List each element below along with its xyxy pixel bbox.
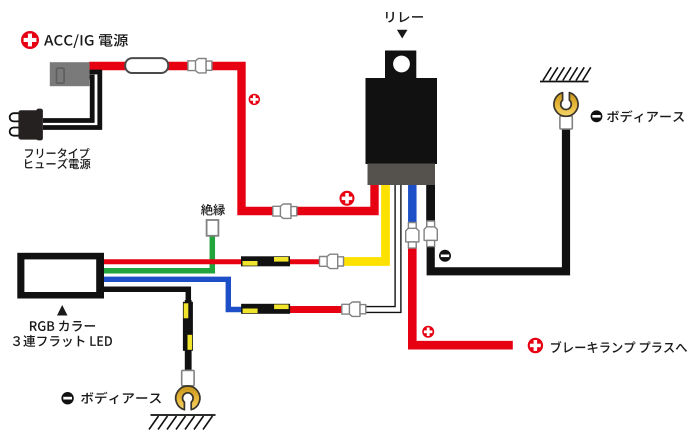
connector C1 on red feed: [188, 59, 212, 73]
icon: minus badge near relay ground: [439, 250, 451, 262]
wire: black leads from power connector to fuse holder: [43, 72, 100, 128]
label: リレー: [386, 12, 423, 23]
icon: plus badge ACC power: [21, 31, 39, 49]
relay U1 body: [366, 78, 438, 164]
label: ボディアース (right): [607, 110, 684, 122]
LED unit lens: [24, 259, 96, 292]
wire: relay white lead (outlined) to connector: [360, 181, 398, 310]
label: RGB カラー: [30, 321, 95, 332]
wire: ACC/IG red feed via fuse to relay: [89, 66, 375, 211]
fuse tube on red feed: [125, 58, 168, 73]
relay U1 mounting tab: [385, 51, 416, 80]
wire: LED blue lead to splice: [104, 279, 250, 309]
fuse holder: free-type fuse body: [18, 109, 42, 141]
ground: body earth hatching (top right): [540, 67, 591, 81]
label: ３連フラット LED: [13, 335, 112, 347]
icon: plus badge brake lamp label: [528, 338, 543, 353]
LED unit body: [17, 253, 104, 299]
wire: relay ground black lead to body earth: [431, 126, 566, 271]
marker: triangle pointing to LED: [57, 305, 68, 316]
connector C4 red-to-white: [342, 302, 366, 316]
splice on LED red lead: [241, 256, 290, 266]
connector C6 on black lead: [424, 221, 437, 247]
terminal: ring crimp sleeve (bottom left): [182, 370, 194, 385]
wire: red brake-signal lead to brake lamp: [412, 244, 513, 345]
connector C5 on blue lead: [406, 223, 419, 249]
label: ACC/IG 電源: [44, 34, 128, 48]
connector C2 on red feed lower run: [273, 204, 297, 218]
terminal: gold spade lug (bottom left): [176, 386, 200, 410]
wire: LED black lead down to earth terminal: [104, 289, 188, 372]
icon: plus badge near relay: [340, 191, 355, 206]
icon: plus badge on red feed: [249, 94, 260, 105]
relay U1 mounting hole: [393, 56, 410, 73]
label: ボディアース (left): [81, 392, 161, 404]
label: フリータイプ: [25, 148, 89, 158]
label: ブレーキランプ プラスへ: [551, 341, 687, 353]
wire: relay black lead stub: [426, 183, 435, 228]
ground: body earth hatching (bottom left): [149, 415, 216, 430]
wire: relay yellow output to connector: [336, 183, 386, 262]
label: 絶縁: [201, 204, 225, 216]
terminal: ring crimp sleeve (right): [560, 116, 572, 129]
splice on LED black lead: [183, 302, 193, 351]
relay U1 socket: [368, 164, 436, 186]
wire: relay blue lead stub: [408, 183, 417, 228]
terminal: gold spade lug (right): [554, 93, 578, 117]
connector C3 red-to-yellow: [320, 254, 344, 268]
wire: green LED lead to insulation cap: [104, 235, 212, 271]
insulation cap on green lead: [207, 220, 219, 236]
connector: ACC power plug housing: [50, 62, 90, 86]
icon: minus badge left body earth: [61, 392, 73, 404]
wire: LED red lead (thin) to connector: [104, 259, 330, 264]
wire: red link splice to connector (row2): [282, 306, 352, 313]
icon: plus badge at brake corner: [422, 326, 434, 338]
splice on LED blue link: [241, 304, 290, 314]
fuse holder: blade prongs: [10, 113, 22, 136]
icon: minus badge right body earth: [591, 110, 603, 122]
label: ヒューズ電源: [25, 158, 91, 169]
marker: triangle pointing to relay: [397, 30, 408, 39]
